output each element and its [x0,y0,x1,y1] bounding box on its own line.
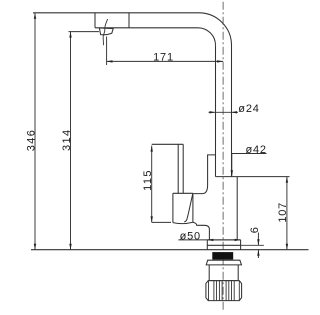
svg-text:115: 115 [142,169,154,191]
svg-text:ø24: ø24 [238,103,259,115]
svg-text:346: 346 [25,129,37,152]
svg-text:171: 171 [153,52,174,64]
svg-text:ø50: ø50 [180,230,201,242]
svg-text:ø42: ø42 [246,144,267,156]
svg-text:107: 107 [277,202,289,223]
svg-text:314: 314 [61,128,73,151]
svg-text:6: 6 [249,226,261,233]
